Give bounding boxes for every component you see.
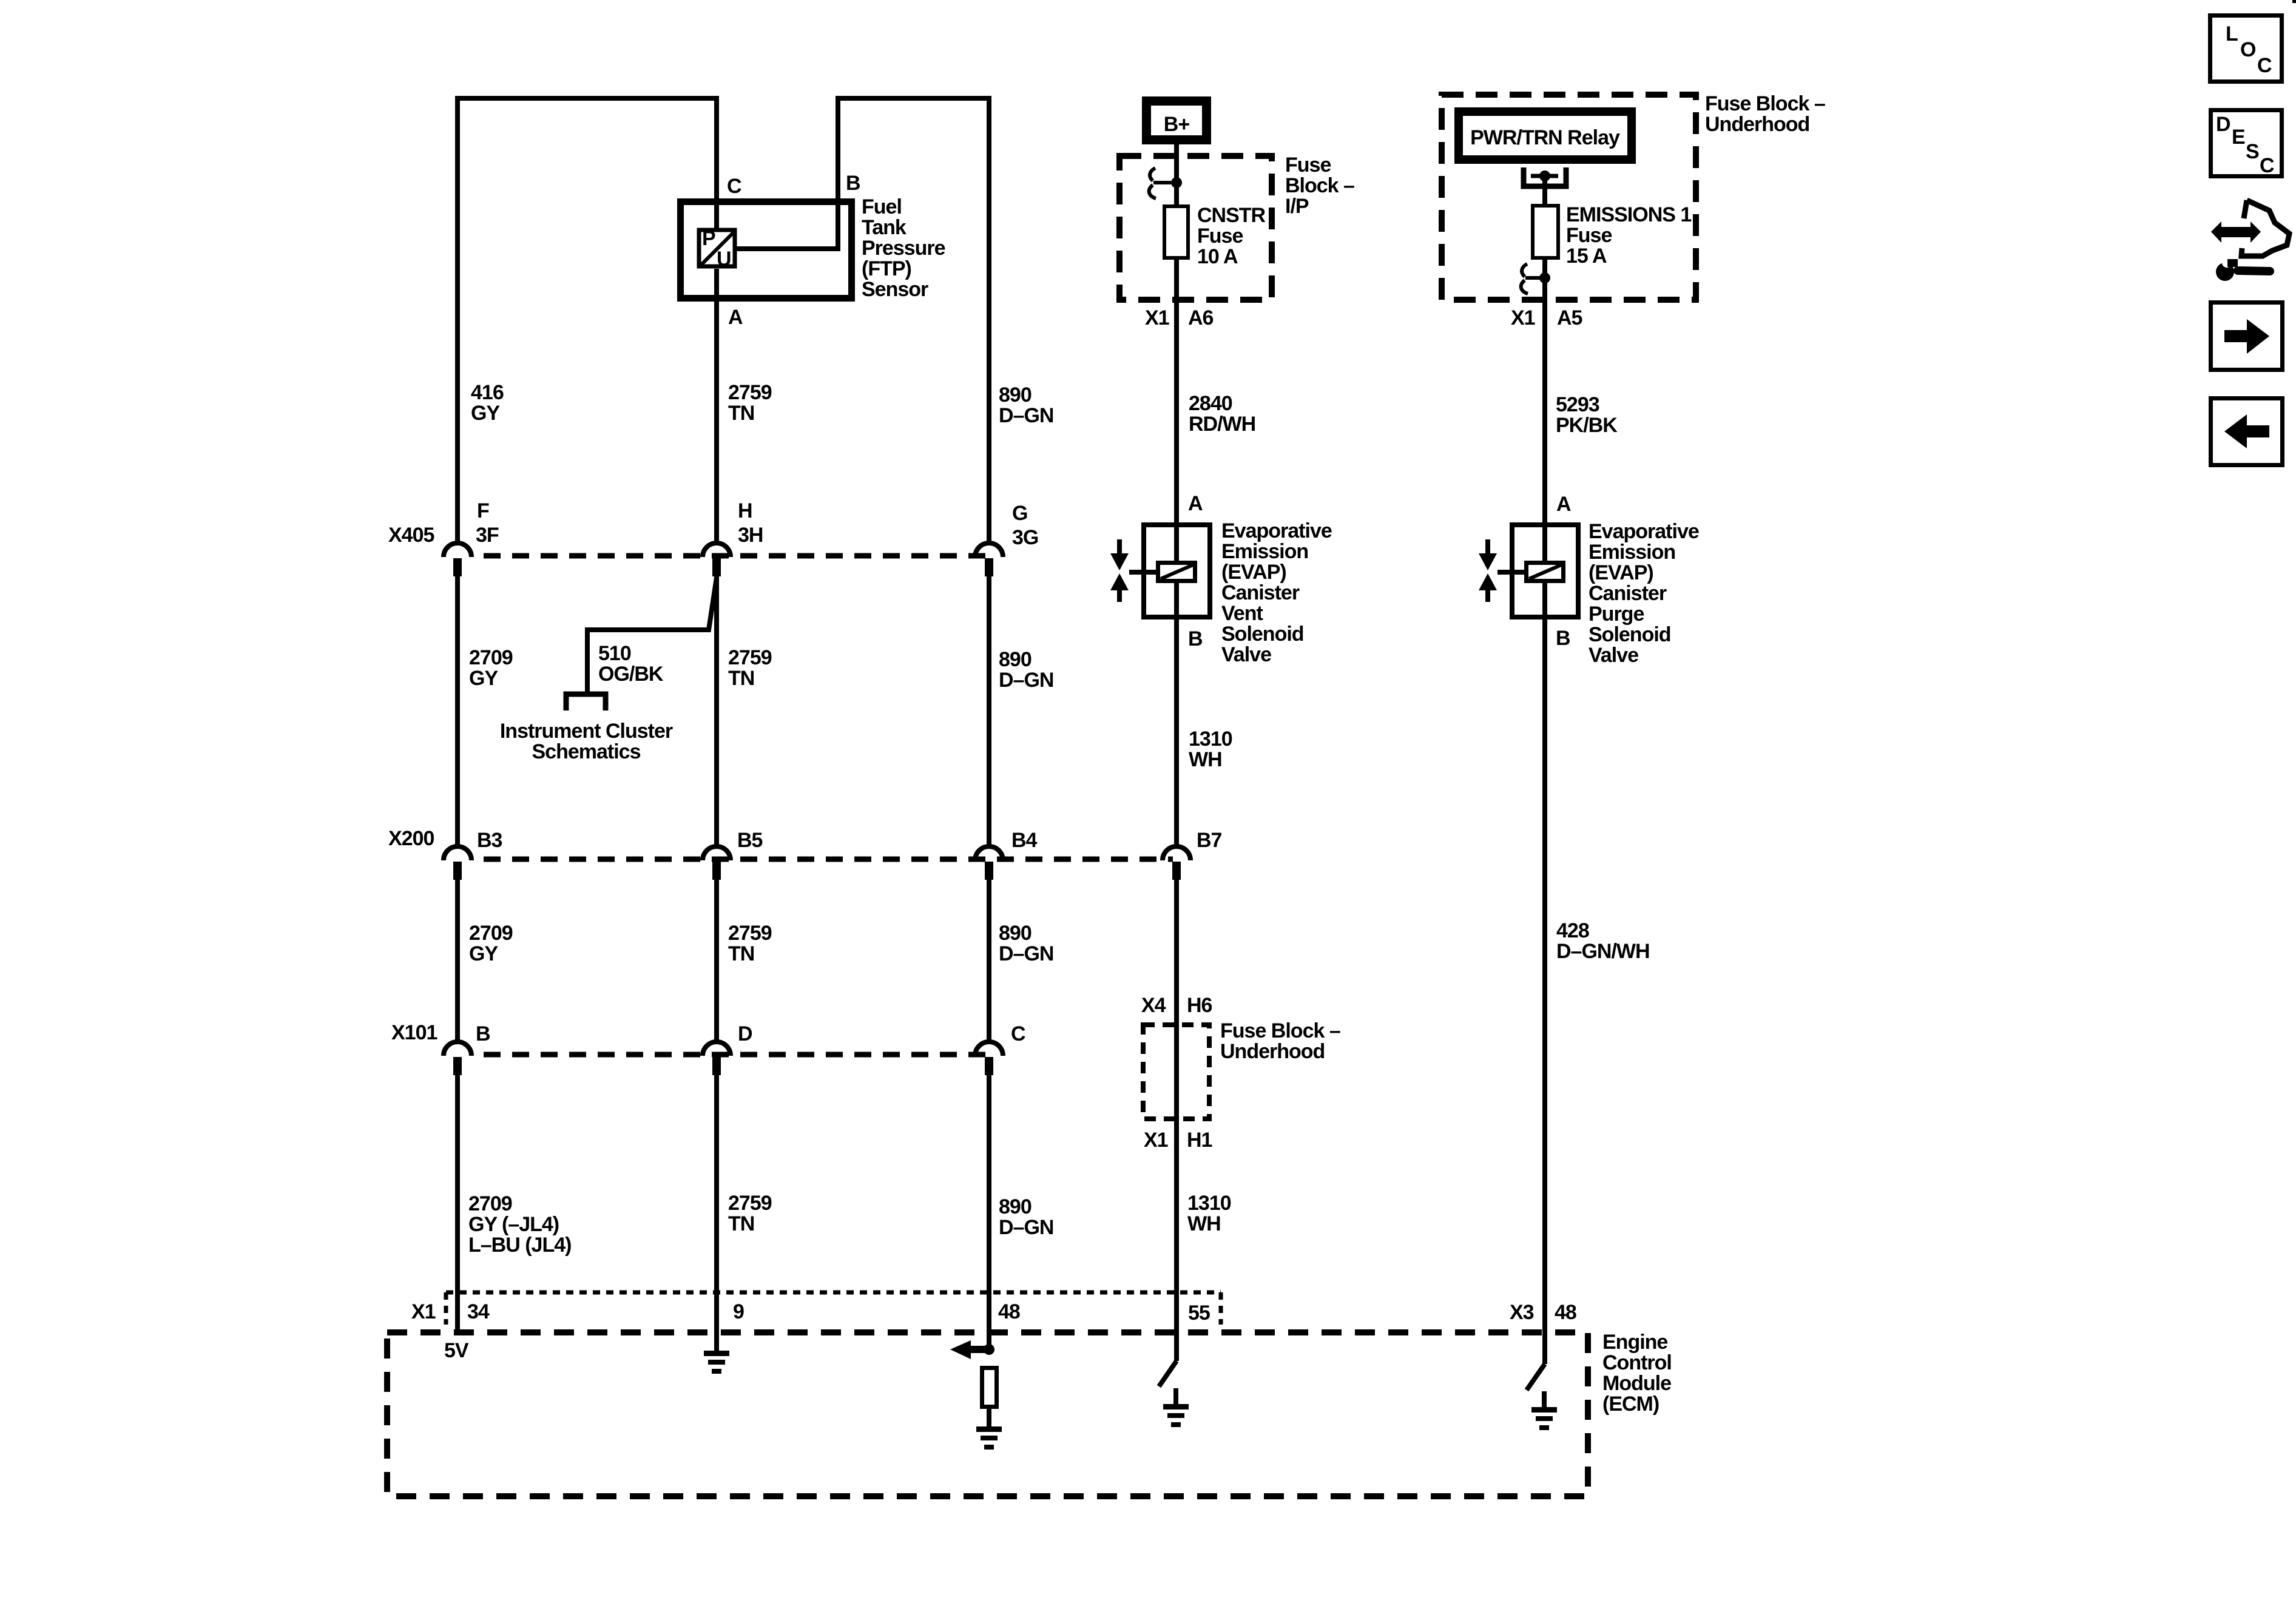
svg-text:WH: WH xyxy=(1187,1212,1221,1235)
wire resistor to ground xyxy=(987,1409,991,1428)
wire vent solenoid coil to pin B xyxy=(1174,581,1179,619)
svg-text:X101: X101 xyxy=(391,1021,437,1044)
fuse block underhood dashed outline xyxy=(1442,95,1696,300)
wire purge solenoid coil to pin B xyxy=(1542,581,1547,619)
svg-text:890: 890 xyxy=(999,1195,1032,1218)
connector X405 pin G xyxy=(975,543,1003,576)
svg-text:5293: 5293 xyxy=(1556,393,1599,416)
svg-text:TN: TN xyxy=(728,942,754,965)
fuse block I/P dashed outline xyxy=(1119,156,1272,300)
svg-text:890: 890 xyxy=(999,648,1032,671)
fuse block name label Fuse Block - I/P xyxy=(1285,154,1354,218)
connector X405 pin F xyxy=(444,543,471,576)
connector X405 pin H xyxy=(703,543,731,576)
bus tap symbol xyxy=(1521,264,1541,294)
DESC navigation icon box xyxy=(2211,110,2282,178)
wire label 2759 TN xyxy=(728,381,772,425)
wire EMISSIONS 1 fuse to connector X1 A5 xyxy=(1542,260,1547,528)
svg-text:G: G xyxy=(1012,502,1027,525)
svg-text:1310: 1310 xyxy=(1189,727,1232,751)
fuse block name label Fuse Block - Underhood xyxy=(1220,1019,1340,1063)
page edge artifact mark xyxy=(2292,0,2296,3)
svg-text:B: B xyxy=(1188,627,1203,650)
LOC navigation icon box xyxy=(2210,16,2282,82)
connector X200 pin B5 xyxy=(703,846,731,880)
svg-text:Fuse: Fuse xyxy=(1285,154,1331,177)
wire label 2709 GY xyxy=(469,922,513,965)
fuse block name label Fuse Block - Underhood xyxy=(1705,92,1825,136)
svg-text:A6: A6 xyxy=(1188,306,1214,329)
svg-text:D–GN: D–GN xyxy=(999,669,1053,692)
svg-text:H1: H1 xyxy=(1187,1129,1212,1152)
ground symbol at ECM X3 pin 48 xyxy=(1531,1391,1557,1430)
svg-text:D–GN: D–GN xyxy=(999,1216,1053,1239)
connector X200 pin B3 xyxy=(444,846,471,880)
svg-text:Valve: Valve xyxy=(1221,643,1271,666)
off-page connector to instrument cluster xyxy=(566,694,606,711)
svg-text:2709: 2709 xyxy=(469,922,513,945)
bus tap symbol xyxy=(1149,168,1171,198)
wire label 428 D-GN/WH xyxy=(1556,919,1650,963)
engine control module name label xyxy=(1602,1331,1672,1416)
svg-text:2709: 2709 xyxy=(469,646,513,669)
svg-text:D–GN/WH: D–GN/WH xyxy=(1556,940,1650,963)
switch to ground inside ECM at pin 55 xyxy=(1159,1361,1177,1386)
svg-text:Fuse: Fuse xyxy=(1566,224,1612,247)
connector X101 pin B xyxy=(444,1042,471,1075)
wire 890 D-GN - X405 G to X200 B4 xyxy=(987,575,991,846)
svg-text:E: E xyxy=(2232,126,2245,149)
label CNSTR Fuse 10 A xyxy=(1197,204,1266,268)
wire label 1310 WH xyxy=(1189,727,1232,771)
wire branch to instrument cluster xyxy=(587,578,717,695)
wire label 890 D-GN xyxy=(999,1195,1053,1239)
ECM connector X1 dotted bracket xyxy=(446,1292,1221,1325)
svg-text:Emission: Emission xyxy=(1221,540,1308,563)
wire 890 D-GN - X101 C to ECM pin 48 xyxy=(987,1074,991,1349)
svg-text:RD/WH: RD/WH xyxy=(1189,413,1255,436)
label EMISSIONS 1 Fuse 15 A xyxy=(1566,203,1691,268)
wire 2709 GY - X200 B3 to X101 B xyxy=(455,879,460,1042)
svg-text:Valve: Valve xyxy=(1589,644,1638,667)
node junction bus tap below EMISSIONS 1 fuse xyxy=(1539,272,1550,283)
svg-text:(ECM): (ECM) xyxy=(1602,1393,1659,1416)
svg-text:PWR/TRN Relay: PWR/TRN Relay xyxy=(1470,126,1620,149)
svg-text:OG/BK: OG/BK xyxy=(598,663,664,686)
forward navigation arrow icon box xyxy=(2211,303,2283,370)
wire through vent solenoid xyxy=(1174,522,1179,562)
wire label 2759 TN xyxy=(728,922,772,965)
switch to ground inside ECM at X3 pin 48 xyxy=(1527,1364,1545,1390)
wire label 890 D-GN xyxy=(999,648,1053,692)
svg-text:(EVAP): (EVAP) xyxy=(1221,561,1286,584)
svg-text:A: A xyxy=(1556,493,1571,516)
wire through purge solenoid xyxy=(1542,522,1547,562)
wire 2759 TN - sensor pin C drop from top loop xyxy=(714,96,719,228)
connector X101 dashed line xyxy=(484,1052,985,1058)
svg-text:C: C xyxy=(2257,54,2272,77)
svg-text:3F: 3F xyxy=(476,524,499,547)
svg-text:B: B xyxy=(476,1022,490,1045)
svg-text:48: 48 xyxy=(998,1300,1020,1323)
svg-text:A5: A5 xyxy=(1557,306,1582,329)
wire 2759 TN - X200 B5 to X101 D xyxy=(714,879,719,1042)
svg-text:B3: B3 xyxy=(477,829,502,852)
svg-text:890: 890 xyxy=(999,383,1032,407)
EVAP canister purge solenoid valve name label xyxy=(1589,520,1699,667)
svg-text:2759: 2759 xyxy=(728,1192,772,1215)
svg-text:GY (–JL4): GY (–JL4) xyxy=(468,1213,559,1236)
svg-text:48: 48 xyxy=(1555,1301,1576,1324)
connector X200 dashed line xyxy=(484,857,1173,862)
svg-text:L–BU (JL4): L–BU (JL4) xyxy=(468,1234,571,1257)
svg-text:(FTP): (FTP) xyxy=(862,257,911,280)
engine control module dashed outline xyxy=(387,1332,1588,1496)
node junction bus tap above CNSTR fuse xyxy=(1171,177,1182,188)
svg-text:CNSTR: CNSTR xyxy=(1197,204,1266,227)
svg-text:Canister: Canister xyxy=(1221,581,1300,604)
connector label X1 H1 xyxy=(1144,1129,1212,1152)
svg-text:H: H xyxy=(738,499,752,522)
wire label 2759 TN xyxy=(728,1192,772,1235)
svg-text:2840: 2840 xyxy=(1189,392,1232,415)
svg-text:2759: 2759 xyxy=(728,922,772,945)
node junction relay output xyxy=(1539,170,1550,181)
svg-text:U: U xyxy=(717,248,731,271)
svg-text:TN: TN xyxy=(728,667,754,690)
svg-text:2709: 2709 xyxy=(468,1192,512,1215)
battery feed B+ terminal box xyxy=(1147,101,1207,140)
svg-text:Evaporative: Evaporative xyxy=(1221,519,1332,542)
wire CNSTR fuse to connector X1 A6 xyxy=(1174,260,1179,528)
svg-text:X200: X200 xyxy=(388,827,434,850)
svg-text:X1: X1 xyxy=(1145,306,1169,329)
fuse EMISSIONS 1 15A symbol xyxy=(1533,206,1558,258)
svg-text:L: L xyxy=(2226,22,2238,46)
svg-text:Fuel: Fuel xyxy=(862,195,902,218)
svg-text:Pressure: Pressure xyxy=(862,237,945,260)
svg-text:X1: X1 xyxy=(411,1300,436,1323)
svg-text:Evaporative: Evaporative xyxy=(1589,520,1699,543)
svg-text:Solenoid: Solenoid xyxy=(1589,623,1671,646)
svg-text:WH: WH xyxy=(1189,748,1222,771)
svg-text:Block –: Block – xyxy=(1285,174,1354,197)
svg-text:PK/BK: PK/BK xyxy=(1556,414,1618,437)
fuse block underhood pass-through dashed outline xyxy=(1143,1025,1209,1119)
wire label 510 OG/BK xyxy=(598,642,664,686)
wire label 890 D-GN xyxy=(999,922,1053,965)
svg-text:Emission: Emission xyxy=(1589,541,1675,564)
wire label 5293 PK/BK xyxy=(1556,393,1618,437)
svg-text:2759: 2759 xyxy=(728,381,772,404)
svg-text:X4: X4 xyxy=(1141,994,1166,1017)
svg-text:890: 890 xyxy=(999,922,1032,945)
svg-text:Tank: Tank xyxy=(862,216,907,239)
svg-text:A: A xyxy=(728,306,743,329)
vent valve symbol xyxy=(1110,539,1129,602)
wire label 1310 WH xyxy=(1187,1192,1231,1235)
svg-text:O: O xyxy=(2240,38,2256,61)
back navigation arrow icon box xyxy=(2211,399,2283,465)
svg-text:B5: B5 xyxy=(737,829,763,852)
svg-text:1310: 1310 xyxy=(1187,1192,1231,1215)
FTP sensor name label xyxy=(862,195,945,301)
svg-text:X405: X405 xyxy=(388,524,434,547)
wire 2759 TN - sensor pin A to X405 pin H xyxy=(714,269,719,543)
svg-text:D: D xyxy=(738,1022,752,1045)
svg-text:Sensor: Sensor xyxy=(862,278,928,301)
ground symbol at ECM pin 55 xyxy=(1163,1388,1189,1427)
svg-text:TN: TN xyxy=(728,1212,754,1235)
svg-text:X1: X1 xyxy=(1511,306,1535,329)
harness repair icon with double arrow and wrench xyxy=(2211,200,2289,281)
svg-text:Underhood: Underhood xyxy=(1705,113,1809,136)
wire label 890 D-GN xyxy=(999,383,1053,427)
svg-text:S: S xyxy=(2246,140,2259,163)
wire 2759 TN - X405 H to X200 B5 xyxy=(714,575,719,846)
wire 1310 WH - fuse block to ECM pin 55 xyxy=(1174,1121,1179,1361)
wire 890 D-GN - X200 B4 to X101 C xyxy=(987,879,991,1042)
wire label 2759 TN xyxy=(728,646,772,690)
wire label 2709 GY (-JL4) L-BU (JL4) xyxy=(468,1192,571,1257)
svg-text:GY: GY xyxy=(471,402,500,425)
FTP sensor internal wire from transducer to pin B xyxy=(737,98,989,543)
PWR/TRN relay box xyxy=(1459,112,1632,160)
svg-text:Engine: Engine xyxy=(1602,1331,1667,1354)
svg-text:Purge: Purge xyxy=(1589,603,1644,626)
svg-text:34: 34 xyxy=(467,1300,490,1323)
relay output bracket xyxy=(1524,167,1566,186)
svg-text:55: 55 xyxy=(1188,1301,1210,1325)
svg-text:C: C xyxy=(727,175,741,198)
svg-text:15 A: 15 A xyxy=(1566,245,1607,268)
svg-text:I/P: I/P xyxy=(1285,195,1309,218)
connector X200 pin B7 xyxy=(1163,846,1190,880)
svg-text:Canister: Canister xyxy=(1589,582,1667,605)
resistor inside ECM at pin 48 xyxy=(982,1368,997,1407)
svg-text:(EVAP): (EVAP) xyxy=(1589,561,1653,584)
svg-text:B: B xyxy=(1556,627,1570,650)
svg-text:3H: 3H xyxy=(738,524,763,547)
EVAP canister vent solenoid valve name label xyxy=(1221,519,1332,666)
wire 1310 WH - X200 B7 to fuse block underhood X4 H6 xyxy=(1174,879,1179,1121)
svg-text:2759: 2759 xyxy=(728,646,772,669)
svg-text:Underhood: Underhood xyxy=(1220,1040,1325,1063)
instrument cluster schematics reference label xyxy=(500,720,673,763)
svg-text:3G: 3G xyxy=(1012,526,1038,549)
svg-text:Module: Module xyxy=(1602,1372,1671,1395)
wire label 416 GY xyxy=(471,381,504,425)
svg-text:GY: GY xyxy=(469,667,498,690)
svg-text:P: P xyxy=(702,227,715,250)
svg-text:B4: B4 xyxy=(1011,829,1038,852)
svg-text:D: D xyxy=(2216,113,2230,136)
purge valve symbol xyxy=(1479,539,1497,602)
connector X101 pin D xyxy=(703,1042,731,1075)
EVAP canister purge solenoid valve box xyxy=(1512,525,1578,617)
wire relay to EMISSIONS 1 fuse xyxy=(1542,176,1547,206)
svg-text:510: 510 xyxy=(598,642,631,665)
wire 428 D-GN/WH - purge solenoid B to ECM X3 pin 48 xyxy=(1542,619,1547,1364)
svg-text:Vent: Vent xyxy=(1221,602,1263,625)
connector label X4 H6 xyxy=(1141,994,1212,1017)
svg-text:D–GN: D–GN xyxy=(999,942,1053,965)
wire 2759 TN - X101 D to ECM pin 9 xyxy=(714,1074,719,1335)
ground symbol at ECM pin 9 xyxy=(704,1335,729,1374)
vent solenoid coil xyxy=(1129,563,1195,581)
FTP sensor P/U transducer symbol xyxy=(699,227,735,271)
fuse CNSTR 10A symbol xyxy=(1164,206,1188,258)
svg-text:B: B xyxy=(846,172,860,195)
svg-text:Fuse Block –: Fuse Block – xyxy=(1705,92,1825,115)
svg-text:C: C xyxy=(1011,1022,1025,1045)
connector X405 dashed line xyxy=(484,553,985,559)
svg-text:Fuse Block –: Fuse Block – xyxy=(1220,1019,1340,1042)
svg-text:428: 428 xyxy=(1556,919,1589,942)
EVAP canister vent solenoid valve box xyxy=(1144,525,1210,617)
svg-text:D–GN: D–GN xyxy=(999,404,1053,427)
purge solenoid coil xyxy=(1497,563,1564,581)
svg-text:EMISSIONS 1: EMISSIONS 1 xyxy=(1566,203,1691,226)
connector X101 pin C xyxy=(975,1042,1003,1075)
svg-text:416: 416 xyxy=(471,381,504,404)
svg-text:Schematics: Schematics xyxy=(532,740,641,763)
wire label 2709 GY xyxy=(469,646,513,690)
svg-text:10 A: 10 A xyxy=(1197,245,1238,268)
node junction at ECM pin 48 xyxy=(984,1344,994,1355)
wire 1310 WH - vent solenoid B to X200 B7 xyxy=(1174,619,1179,846)
svg-text:Instrument Cluster: Instrument Cluster xyxy=(500,720,673,743)
connector label X1 A5 xyxy=(1511,306,1582,329)
svg-text:Fuse: Fuse xyxy=(1197,224,1243,248)
wire 2709 GY - X405 F to X200 B3 xyxy=(455,575,460,846)
svg-text:X3: X3 xyxy=(1510,1301,1534,1324)
ground symbol below resistor xyxy=(976,1425,1002,1450)
svg-text:A: A xyxy=(1188,492,1203,515)
svg-text:TN: TN xyxy=(728,402,754,425)
connector label X1 A6 xyxy=(1145,306,1214,329)
svg-text:X1: X1 xyxy=(1144,1129,1168,1152)
svg-text:5V: 5V xyxy=(444,1339,469,1362)
svg-text:GY: GY xyxy=(469,942,498,965)
wire B+ to CNSTR fuse xyxy=(1174,144,1179,206)
svg-text:Solenoid: Solenoid xyxy=(1221,623,1304,646)
wire 416 GY - vertical from top loop to X405 pin F xyxy=(458,98,717,543)
svg-text:H6: H6 xyxy=(1187,994,1212,1017)
connector X200 pin B4 xyxy=(975,846,1003,880)
svg-text:9: 9 xyxy=(733,1300,744,1323)
svg-text:B7: B7 xyxy=(1197,829,1222,852)
FTP sensor box xyxy=(681,202,852,299)
svg-text:C: C xyxy=(2260,154,2274,177)
wire label 2840 RD/WH xyxy=(1189,392,1255,436)
svg-text:F: F xyxy=(477,499,489,522)
svg-text:B+: B+ xyxy=(1164,113,1190,136)
svg-text:Control: Control xyxy=(1602,1351,1672,1374)
signal arrow at ECM pin 48 xyxy=(950,1340,989,1359)
wire 2709 GY / L-BU - X101 B to ECM pin 34 xyxy=(455,1074,460,1332)
